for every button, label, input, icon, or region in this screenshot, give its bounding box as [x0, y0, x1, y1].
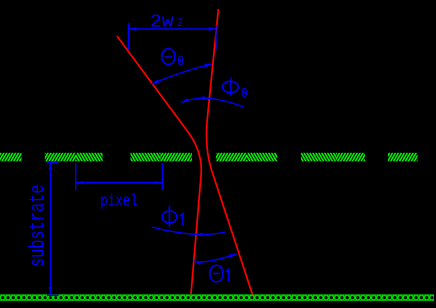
label phi0 — [223, 78, 248, 102]
svg-text:2w: 2w — [150, 12, 174, 32]
dimension pixel extension tick right — [161, 163, 163, 190]
label theta0 — [162, 49, 184, 71]
pixel layer segment S5 — [301, 153, 365, 162]
label 2wz — [150, 12, 183, 32]
substrate surface bar — [0, 294, 434, 300]
dimension 2wz extension tick right — [215, 25, 217, 49]
svg-text:0: 0 — [177, 54, 184, 71]
angle arc theta0 with arrows both ends — [152, 64, 213, 84]
label phi1 — [162, 206, 183, 227]
svg-text:substrate: substrate — [28, 185, 51, 268]
pixel layer segment S6 — [388, 153, 418, 162]
arc phi1 arrowhead at ray pointing left — [195, 233, 203, 237]
pixel layer segment S3 — [131, 153, 192, 162]
angle arc phi0 (left half, arrows at start and at chief ray) — [181, 98, 210, 102]
label theta1 — [210, 265, 229, 282]
dimension pixel line with outward arrows — [76, 182, 162, 184]
pixel layer segment S2 — [45, 153, 103, 162]
svg-text:z: z — [177, 16, 183, 31]
dimension substrate line with outward arrows — [50, 163, 52, 295]
dimension substrate tick bottom — [47, 294, 59, 296]
pixel layer segment S1 — [0, 153, 22, 162]
dimension 2wz extension tick left — [128, 23, 130, 50]
ray left (marginal ray, refracts at pixel plane) — [117, 36, 201, 294]
angle arc phi1 (left half with end arrow at ray) — [152, 227, 195, 234]
angle arc theta1 with arrows both ends — [194, 254, 237, 262]
angle arc phi0 tail — [210, 98, 244, 107]
svg-text:pixel: pixel — [100, 191, 138, 210]
svg-text:0: 0 — [241, 86, 248, 102]
dimension substrate tick top — [47, 161, 59, 163]
dimension 2wz line with outward arrows — [129, 28, 216, 30]
angle arc phi1 tail — [194, 232, 226, 234]
ray right (chief ray, refracts at pixel plane) — [206, 9, 252, 295]
pixel layer segment S4 — [216, 153, 277, 162]
dimension pixel extension tick left — [75, 163, 77, 190]
